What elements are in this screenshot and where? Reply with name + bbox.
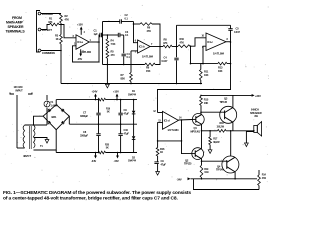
resistor R20 top bbox=[98, 98, 111, 113]
wire bridge plus to top bus bbox=[55, 100, 57, 105]
wire IC1-b output bbox=[150, 46, 163, 48]
op-amp IC1-d bbox=[153, 110, 182, 132]
svg-text:10Ω: 10Ω bbox=[204, 171, 208, 174]
wire Q4 emitter to -34V rail bbox=[234, 172, 236, 180]
svg-text:+34V: +34V bbox=[92, 90, 98, 94]
ground for R17 bbox=[208, 150, 212, 154]
terminal IN RIGHT bbox=[38, 12, 54, 16]
svg-text:+34V: +34V bbox=[255, 94, 261, 98]
PSU bottom bus bbox=[56, 150, 137, 153]
transistor Q3 output bbox=[220, 97, 237, 124]
svg-text:47K: 47K bbox=[48, 20, 53, 24]
wire feedback to IC1-b output bbox=[155, 47, 160, 65]
svg-text:TERMINALS: TERMINALS bbox=[6, 29, 26, 33]
wire IC1-a feedback loop bbox=[73, 42, 100, 62]
svg-text:8Ω: 8Ω bbox=[255, 114, 258, 118]
wire COMMON to ground bus bbox=[41, 44, 62, 84]
zener diode D2 bbox=[128, 124, 137, 163]
zener diode D1 bbox=[128, 90, 137, 124]
-15V supply arrow for IC1-a pin 11 bbox=[77, 49, 85, 61]
speaker SPKR1 bbox=[250, 108, 262, 137]
wire Q2 emitter to output line bbox=[201, 131, 203, 149]
svg-text:-34V: -34V bbox=[91, 159, 96, 163]
svg-text:1K: 1K bbox=[56, 37, 59, 41]
wire IC1-c pin 9 to feedback bbox=[203, 46, 206, 63]
+15V supply arrow for IC1-a pin 4 bbox=[77, 23, 86, 35]
resistor R11 bbox=[199, 63, 208, 84]
resistor R13 feedback bbox=[191, 42, 232, 73]
svg-text:47µF: 47µF bbox=[124, 111, 130, 115]
wire Q2 collector node bbox=[201, 158, 203, 165]
wire secondary bottom to bridge bbox=[34, 130, 57, 150]
ground symbol on bus bbox=[106, 65, 110, 88]
wire from IN RIGHT bbox=[41, 13, 61, 15]
fuse F1 bbox=[44, 95, 58, 125]
wire from IN LEFT bbox=[41, 25, 50, 30]
svg-text:SPEAKER: SPEAKER bbox=[8, 25, 24, 29]
figure caption bbox=[3, 190, 191, 202]
resistor R17 bbox=[209, 131, 221, 150]
svg-text:10K: 10K bbox=[204, 73, 209, 77]
svg-text:15K: 15K bbox=[146, 69, 151, 73]
svg-text:-34V: -34V bbox=[177, 177, 182, 181]
wire IC1-d pin 13 bbox=[158, 123, 163, 141]
wire IC1-d feedback line bbox=[157, 140, 183, 142]
svg-text:5K: 5K bbox=[106, 147, 109, 150]
svg-text:1µF: 1µF bbox=[94, 32, 99, 36]
capacitor C10 bbox=[118, 124, 129, 153]
resistor R19 emitter bbox=[200, 165, 209, 179]
svg-text:1N4744: 1N4744 bbox=[128, 93, 137, 96]
svg-text:1/4 TL084: 1/4 TL084 bbox=[213, 52, 225, 56]
wire IC1-c output bbox=[226, 41, 231, 43]
wire output vertical to Q4 collector bbox=[230, 131, 232, 156]
svg-text:48VCT: 48VCT bbox=[23, 154, 31, 158]
svg-text:47Ω: 47Ω bbox=[262, 177, 266, 180]
wire R18 to output node bbox=[226, 122, 254, 131]
input terminal strip bracket bbox=[37, 11, 41, 53]
transformer center tap ground bbox=[34, 138, 49, 144]
svg-text:3300µF: 3300µF bbox=[80, 133, 89, 137]
svg-text:1K: 1K bbox=[160, 150, 163, 154]
wire C2 to IC1-b pin 6 bbox=[133, 22, 138, 43]
svg-text:+15V: +15V bbox=[113, 90, 119, 94]
svg-text:MAIN-AMP: MAIN-AMP bbox=[6, 21, 24, 25]
wire IC1-c output down to power amp bbox=[158, 64, 231, 113]
+34V rail bbox=[201, 94, 261, 98]
wire R10 junction down to feedback line bbox=[190, 45, 192, 64]
svg-text:3300µF: 3300µF bbox=[80, 114, 89, 118]
node input summing junction bbox=[59, 24, 62, 26]
speaker ground bbox=[245, 132, 254, 147]
-15V tap arrow bbox=[114, 152, 119, 163]
capacitor C2 bbox=[103, 13, 134, 24]
transistor Q4 output bbox=[216, 156, 239, 173]
svg-text:IC1-a: IC1-a bbox=[77, 40, 83, 44]
svg-text:-15V: -15V bbox=[114, 159, 119, 163]
transistor Q2 driver bbox=[184, 148, 204, 166]
svg-text:1/4 TL084: 1/4 TL084 bbox=[167, 128, 179, 132]
capacitor C8 bbox=[80, 124, 101, 153]
wire IC1-a output bbox=[74, 41, 100, 45]
svg-text:COMMON: COMMON bbox=[42, 51, 55, 55]
node A after C1 bbox=[102, 34, 104, 36]
resistor R5 bbox=[106, 48, 115, 65]
wire IC1-d output to drivers bbox=[178, 119, 192, 153]
resistor R6 feedback bbox=[134, 23, 161, 47]
wire secondary top to bridge bbox=[34, 116, 44, 125]
svg-text:INPUT: INPUT bbox=[16, 88, 24, 92]
svg-text:150,2W: 150,2W bbox=[217, 125, 225, 128]
wire base drive to Q4 bbox=[202, 160, 223, 162]
svg-text:47K: 47K bbox=[65, 18, 70, 22]
svg-text:+15V: +15V bbox=[77, 23, 83, 27]
op-amp IC1-c bbox=[202, 33, 229, 56]
+15V tap arrow bbox=[113, 90, 119, 101]
wire rail to bottom return bbox=[194, 179, 260, 190]
svg-text:1N4744: 1N4744 bbox=[128, 160, 137, 163]
bridge rectifier BR1 bbox=[43, 105, 69, 130]
svg-text:TIP115: TIP115 bbox=[184, 162, 192, 166]
wire top feedback line bbox=[177, 24, 231, 26]
resistor R15 bbox=[200, 95, 209, 115]
wire Q1 emitter to output line bbox=[201, 124, 203, 131]
-34V tap arrow bbox=[91, 152, 97, 163]
resistor R21 bottom bbox=[98, 144, 110, 154]
wire feedback bottom line bbox=[103, 64, 145, 66]
wire node A vertical bbox=[102, 22, 104, 65]
svg-text:TIP145: TIP145 bbox=[220, 100, 228, 104]
capacitor C9 psu bbox=[118, 99, 129, 125]
svg-text:1/4 TL084: 1/4 TL084 bbox=[142, 55, 154, 59]
PSU top bus bbox=[56, 99, 137, 101]
capacitor C4 bbox=[162, 47, 179, 85]
resistor R18 bbox=[217, 122, 227, 132]
svg-text:IN RIGHT: IN RIGHT bbox=[42, 12, 54, 16]
svg-text:0.047: 0.047 bbox=[234, 30, 240, 34]
resistor R8 bbox=[163, 38, 172, 48]
op-amp IC1-b bbox=[135, 40, 154, 59]
svg-text:47µF: 47µF bbox=[161, 162, 167, 166]
svg-text:TIP146: TIP146 bbox=[216, 168, 224, 172]
capacitor C9 low bbox=[154, 156, 166, 172]
svg-text:IC1-d: IC1-d bbox=[164, 118, 170, 122]
svg-text:IC1-b: IC1-b bbox=[139, 45, 145, 49]
capacitor C4a on node line bbox=[122, 35, 131, 65]
svg-text:-15V: -15V bbox=[77, 57, 82, 61]
terminal IN LEFT bbox=[38, 28, 52, 32]
wire AC hot bbox=[16, 95, 18, 148]
resistor R2 bbox=[60, 14, 69, 24]
wire to speaker bbox=[253, 130, 255, 132]
resistor R1 bbox=[48, 17, 59, 26]
svg-text:of a center-tapped 48-volt tra: of a center-tapped 48-volt transformer, … bbox=[3, 195, 178, 201]
svg-text:MPSU01: MPSU01 bbox=[191, 130, 201, 134]
svg-text:10K: 10K bbox=[218, 69, 223, 73]
svg-text:47µF: 47µF bbox=[124, 131, 130, 135]
input source label bbox=[6, 16, 26, 33]
transformer T1 bbox=[17, 125, 47, 158]
resistor R3 bbox=[55, 23, 62, 44]
wire Q3 collector to +34V rail bbox=[232, 95, 234, 107]
capacitor C5 bbox=[228, 25, 240, 43]
svg-text:BR1: BR1 bbox=[52, 115, 57, 119]
resistor R16 bbox=[156, 141, 165, 156]
svg-text:FROM: FROM bbox=[12, 16, 22, 20]
svg-text:5K: 5K bbox=[107, 111, 110, 114]
svg-text:47K: 47K bbox=[163, 41, 168, 45]
svg-text:47K: 47K bbox=[147, 29, 152, 33]
svg-text:10K: 10K bbox=[204, 101, 209, 105]
wire to IC1-a pin 3 bbox=[61, 25, 76, 39]
svg-text:82K: 82K bbox=[121, 76, 126, 80]
resistor R7 bbox=[121, 51, 138, 84]
wire R10 to IC1-c pin 10 bbox=[190, 35, 206, 47]
wire output line bbox=[202, 130, 218, 132]
ground bus bbox=[61, 83, 202, 85]
capacitor C7 bbox=[80, 99, 101, 125]
transistor Q1 driver bbox=[191, 114, 205, 134]
resistor R9 bbox=[145, 63, 155, 73]
resistor R4 bbox=[106, 34, 116, 48]
-34V rail bbox=[177, 177, 258, 181]
svg-text:68,2W: 68,2W bbox=[213, 141, 220, 144]
svg-text:0.047: 0.047 bbox=[162, 59, 168, 63]
op-amp IC1-a bbox=[76, 35, 92, 54]
+34V tap arrow bbox=[92, 90, 98, 101]
capacitor C3 bbox=[103, 30, 129, 37]
terminal COMMON bbox=[38, 49, 55, 55]
svg-text:FIG. 1—SCHEMATIC DIAGRAM of th: FIG. 1—SCHEMATIC DIAGRAM of the powered … bbox=[3, 190, 191, 196]
wire base drive to Q3 bbox=[201, 111, 223, 113]
resistor R14 bbox=[258, 170, 267, 190]
svg-text:IC1-c: IC1-c bbox=[207, 40, 213, 44]
svg-text:47K: 47K bbox=[180, 40, 185, 44]
PSU ground bus middle bbox=[69, 116, 137, 124]
svg-text:7.5K: 7.5K bbox=[111, 42, 116, 46]
wire R8 to R10 junction bbox=[172, 46, 178, 48]
wire junction to C5 top line bbox=[176, 25, 178, 46]
ground for C9 bbox=[156, 172, 160, 176]
capacitor C1 bbox=[94, 29, 102, 43]
resistor R10 bbox=[178, 37, 190, 48]
120VAC input label bbox=[10, 85, 32, 94]
